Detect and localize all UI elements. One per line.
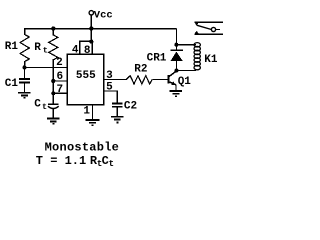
transistor Q1 (169, 71, 177, 90)
node junction R1-C1-pin2 (22, 65, 26, 69)
wire to coil top (176, 44, 196, 46)
svg-text:3: 3 (106, 70, 113, 82)
svg-text:R: R (34, 42, 41, 54)
svg-text:C1: C1 (5, 78, 19, 90)
resistor R1 (20, 28, 29, 68)
wire pin7 (53, 92, 67, 94)
svg-text:Vcc: Vcc (94, 9, 113, 21)
svg-text:555: 555 (76, 70, 96, 82)
wire pin3 to R2 (104, 78, 127, 80)
relay contact armature (197, 25, 212, 29)
relay contact upper terminal (194, 21, 223, 23)
svg-text:CR1: CR1 (147, 53, 167, 65)
svg-text:8: 8 (84, 45, 91, 57)
relay coil K1 (194, 43, 200, 70)
wire pin6 (53, 80, 67, 82)
svg-text:Monostable: Monostable (45, 141, 120, 155)
resistor Rt (49, 29, 58, 60)
ground below pin 1 (86, 120, 100, 125)
wire R2 to Q1 base (152, 78, 168, 80)
relay contact pivot circle (211, 27, 215, 31)
svg-text:Q1: Q1 (178, 76, 192, 88)
capacitor C2 (112, 103, 123, 116)
diode CR1 (170, 45, 183, 71)
node pin7 junction (51, 91, 55, 95)
IC U1 555 timer box (67, 54, 104, 105)
ground below C1 (18, 93, 30, 98)
wire discharge vertical Rt/Ct to pins 6,7 (52, 59, 54, 104)
ground below C2 (111, 117, 123, 123)
svg-text:C: C (34, 99, 41, 111)
svg-text:R1: R1 (5, 41, 19, 53)
wire Vcc drop (90, 15, 92, 41)
wire pin1 ground lead (92, 105, 94, 120)
relay contact upper arrow (195, 23, 199, 26)
svg-text:t: t (109, 159, 114, 169)
wire pin2 to R1/C1 junction (25, 66, 68, 68)
svg-text:2: 2 (56, 57, 63, 69)
svg-text:C2: C2 (124, 101, 137, 113)
svg-text:5: 5 (106, 82, 113, 94)
node diode/coil top junction (174, 43, 178, 47)
pin 4/8 bump box (80, 41, 92, 54)
svg-text:7: 7 (57, 84, 64, 96)
svg-text:T = 1.1: T = 1.1 (36, 154, 86, 168)
node Q1 collector junction (174, 69, 178, 73)
relay contact stub (216, 29, 220, 31)
node pin6 junction (51, 79, 55, 83)
resistor R2 (126, 76, 152, 84)
terminal Vcc circle (89, 11, 93, 15)
wire to coil bottom (176, 70, 196, 72)
node Vcc rail junction (89, 26, 93, 30)
capacitor Ct (48, 104, 59, 118)
relay contact lower terminal (194, 33, 223, 35)
node Rt top on rail (51, 26, 55, 30)
node bump junction (89, 40, 93, 44)
wire pin5 to C2 (104, 91, 118, 103)
svg-text:t: t (42, 102, 47, 112)
svg-text:K1: K1 (204, 54, 218, 66)
svg-text:1: 1 (83, 105, 90, 117)
ground below Ct (47, 119, 59, 124)
ground below Q1 emitter (170, 91, 182, 96)
wire top Vcc rail (25, 28, 177, 30)
svg-text:4: 4 (72, 45, 79, 57)
wire rail to relay branch (175, 29, 177, 45)
relay contact lower arrow (195, 31, 199, 34)
capacitor C1 (19, 67, 30, 92)
svg-text:6: 6 (57, 71, 64, 83)
svg-text:R2: R2 (134, 63, 147, 75)
svg-text:t: t (43, 46, 48, 56)
